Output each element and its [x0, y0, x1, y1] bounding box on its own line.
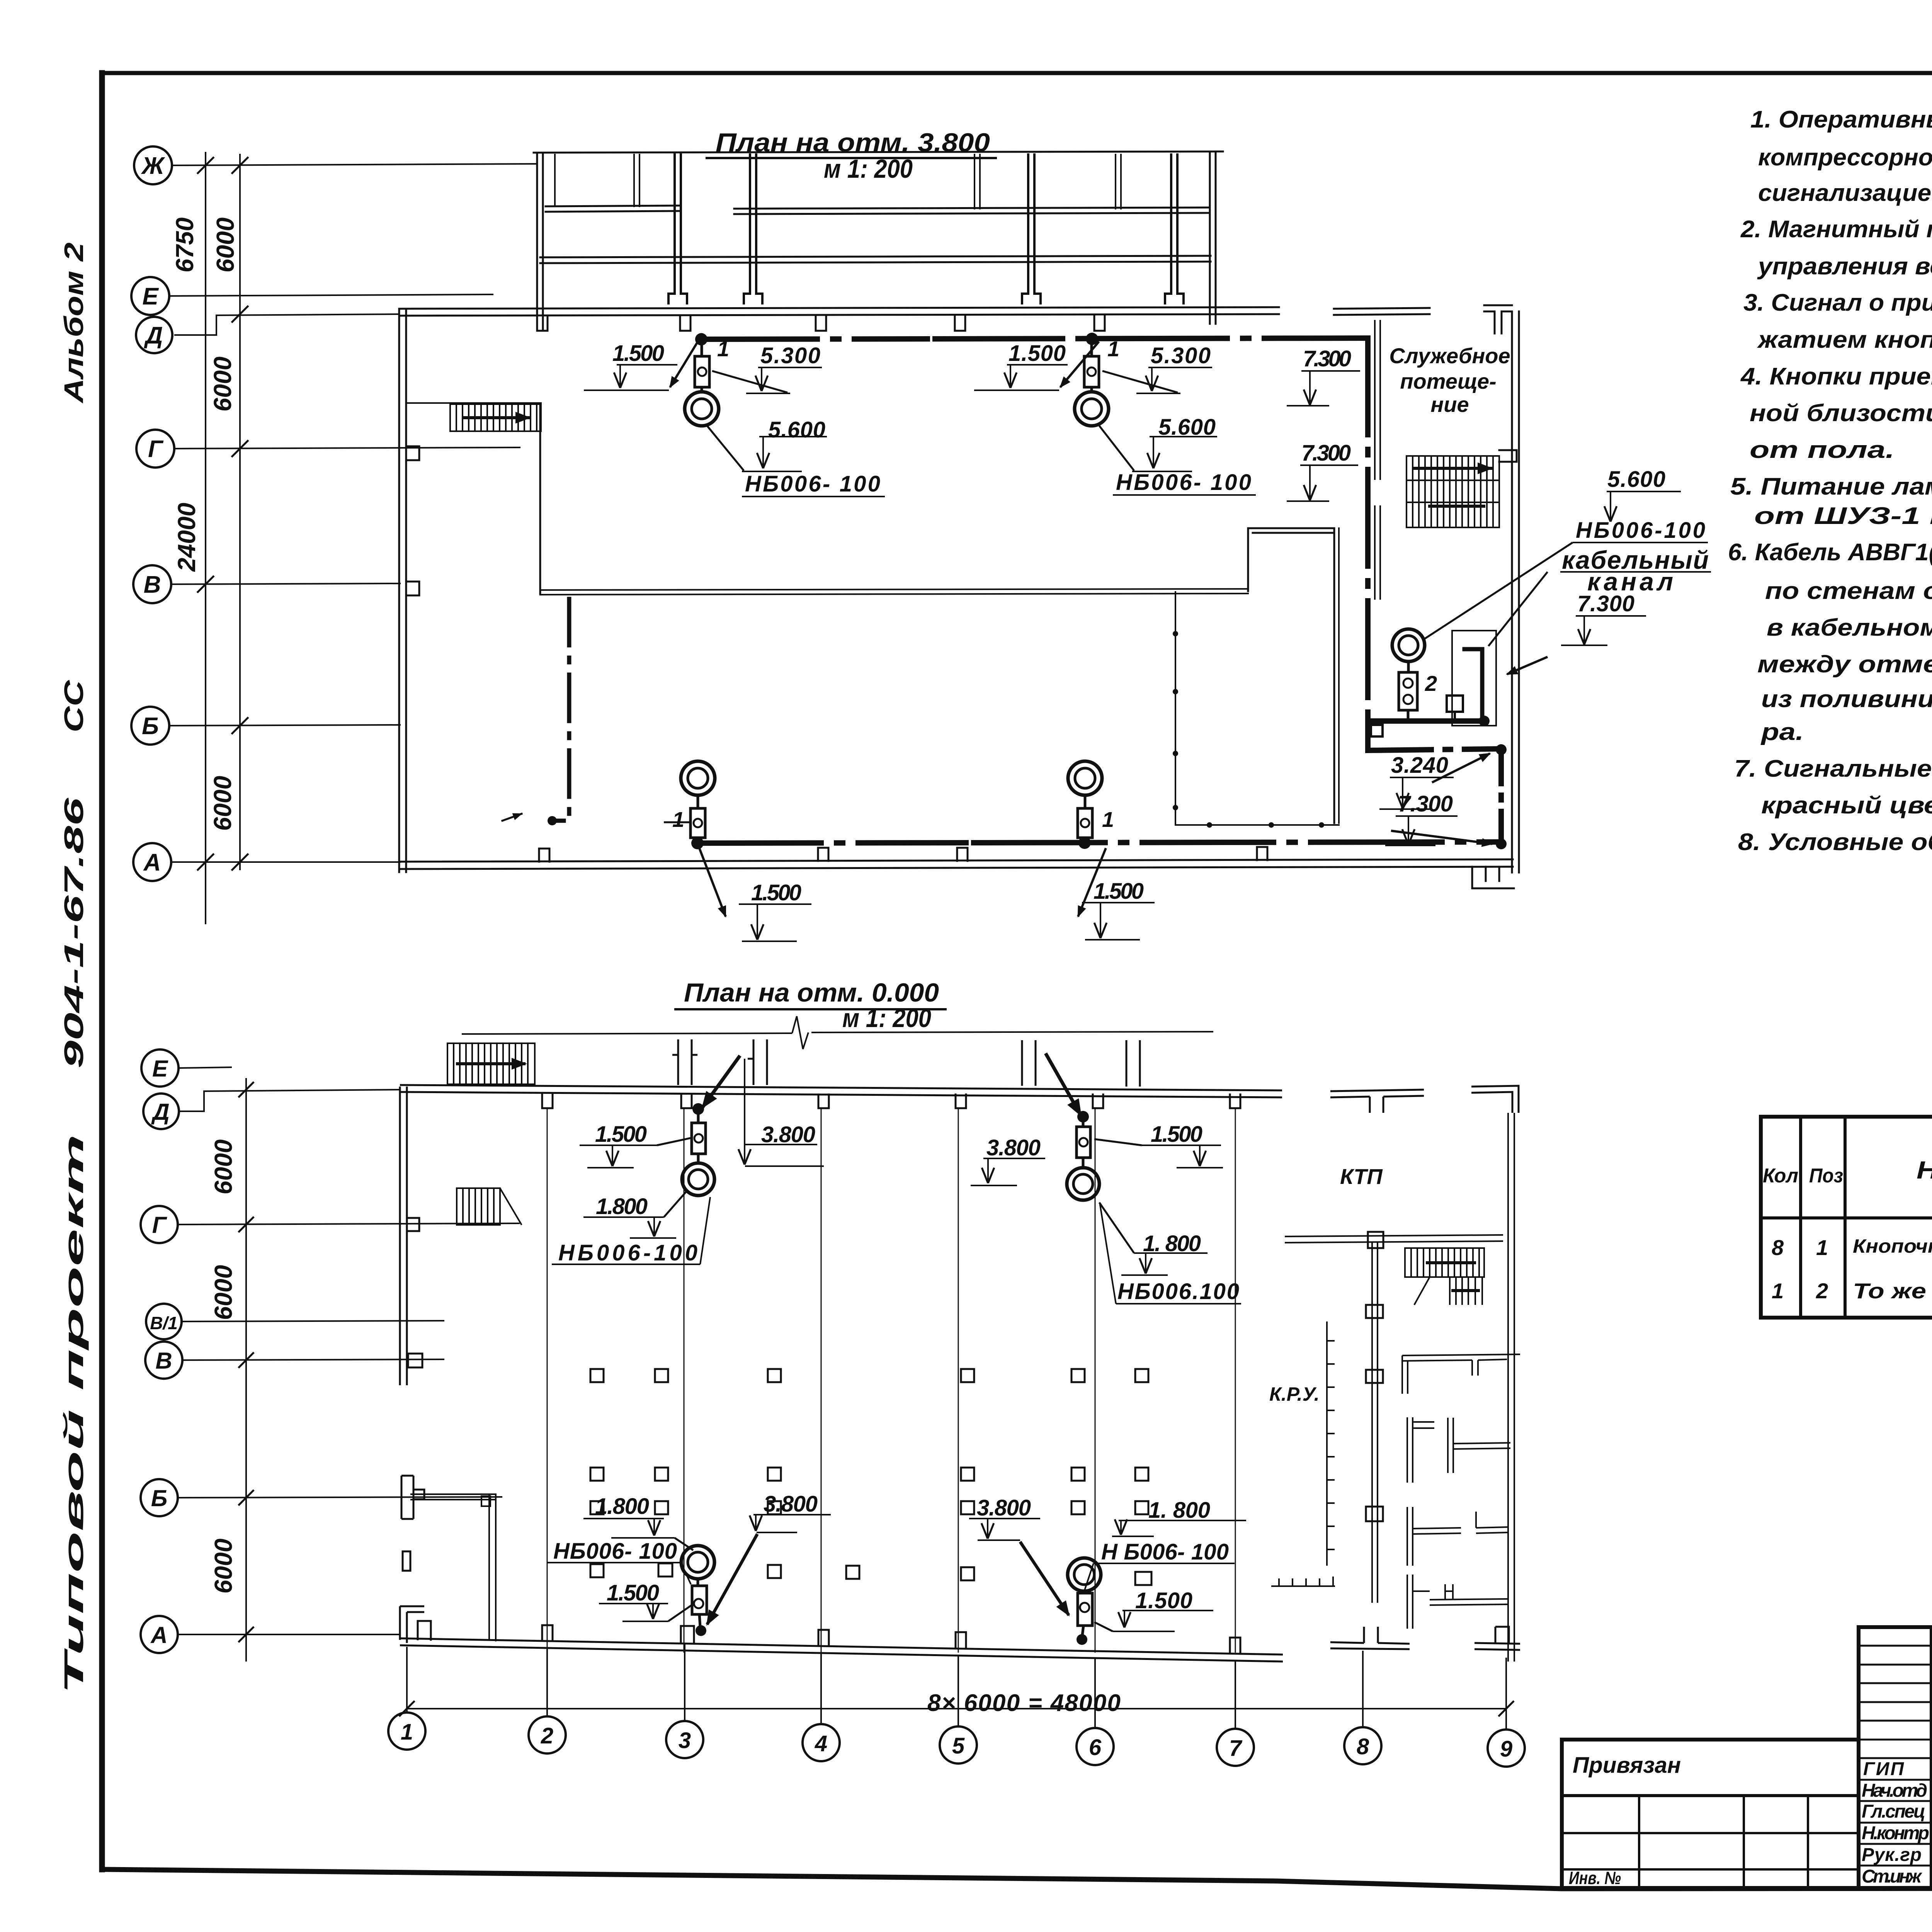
svg-text:из поливинилхлоридного пласти: из поливинилхлоридного пластиката на выс…: [1761, 686, 1932, 713]
svg-text:Кнопочный пост управления: Кнопочный пост управления: [1853, 1235, 1932, 1257]
margin vertical text: [59, 242, 89, 1694]
svg-text:потеще-: потеще-: [1400, 369, 1496, 393]
stair above top wall (hatched): [447, 1043, 535, 1084]
svg-text:1.500: 1.500: [1094, 879, 1144, 904]
cable horizontal in service room: [1368, 718, 1484, 724]
right outer wall: [1511, 311, 1513, 872]
svg-text:7. Сигнальные лампы окрасить: 7. Сигнальные лампы окрасить цапоновым л…: [1734, 755, 1932, 782]
svg-text:8× 6000 = 48000: 8× 6000 = 48000: [927, 1690, 1121, 1716]
grid axis leader Д (jog): [180, 1090, 400, 1111]
top-right column T: [1484, 305, 1512, 333]
interior wall vertical (stair room): [539, 404, 541, 594]
upper-right: dot/box/lamp: [1082, 1117, 1085, 1127]
bottom wall right segments: [1330, 1627, 1410, 1649]
svg-text:Н Б006- 100: Н Б006- 100: [1101, 1539, 1229, 1565]
thin grid verticals through plan: [547, 1108, 1235, 1653]
lamps and buttons bottom plan: [681, 1053, 1101, 1635]
svg-text:1: 1: [1107, 337, 1119, 361]
grid axis leader Г: [178, 1223, 520, 1225]
bubble stems: [407, 1644, 1506, 1730]
svg-text:А: А: [143, 849, 161, 876]
svg-text:5: 5: [952, 1733, 965, 1759]
svg-text:3.800: 3.800: [977, 1495, 1031, 1520]
svg-text:1: 1: [1816, 1235, 1828, 1260]
left outer wall: [398, 309, 400, 872]
tick scale bar: [1271, 1577, 1335, 1586]
svg-text:6000: 6000: [209, 1539, 237, 1594]
svg-text:6000: 6000: [209, 357, 236, 412]
svg-text:4: 4: [815, 1731, 827, 1756]
grid axis leader Е: [179, 1067, 232, 1068]
grid axis leader В: [171, 583, 400, 584]
svg-text:24000: 24000: [173, 503, 201, 572]
equipment squares row 4: [590, 1563, 1151, 1585]
interior room bottom-left: right wall: [488, 1494, 490, 1640]
svg-text:Кол: Кол: [1763, 1165, 1798, 1187]
svg-text:4. Кнопки приема вызова уст: 4. Кнопки приема вызова установить в неп…: [1740, 363, 1932, 390]
svg-text:2. Магнитный пускатель ПМЕ-2: 2. Магнитный пускатель ПМЕ-222 установит…: [1740, 216, 1932, 243]
svg-text:Е: Е: [152, 1056, 168, 1082]
svg-text:1.500: 1.500: [595, 1122, 647, 1147]
dim leader lines top plan: [584, 342, 1711, 941]
cable down right wall: [1498, 749, 1504, 845]
cable junction dots: [548, 333, 1507, 849]
cable left drop: [552, 599, 569, 821]
svg-text:ра.: ра.: [1760, 719, 1804, 745]
svg-text:5.300: 5.300: [760, 343, 820, 368]
svg-text:сигнализацией из потещения: сигнализацией из потещения диспетчера.: [1758, 180, 1932, 206]
svg-text:ние: ние: [1430, 392, 1469, 417]
svg-text:5.600: 5.600: [768, 417, 825, 442]
left outer wall: [399, 1087, 401, 1385]
small junction box on cable: [1371, 725, 1383, 736]
button post lower left: [690, 808, 705, 838]
svg-text:2: 2: [1425, 671, 1437, 696]
svg-text:управления вспомприводами ШУ: управления вспомприводами ШУЗ-1 на пульт…: [1757, 253, 1932, 280]
svg-text:1: 1: [672, 807, 684, 832]
dimension line 8x6000: [407, 1708, 1506, 1709]
svg-text:1. 800: 1. 800: [1148, 1498, 1210, 1523]
svg-text:А: А: [150, 1622, 167, 1648]
svg-text:6000: 6000: [211, 218, 239, 272]
svg-text:Поз: Поз: [1809, 1165, 1843, 1187]
gallery rail 2: [540, 256, 1211, 257]
grid axis leader Г: [174, 447, 520, 449]
right outer wall bottom plan: [1507, 1113, 1509, 1662]
svg-text:2: 2: [541, 1723, 553, 1748]
dim ticks: [198, 158, 248, 870]
cable run along bottom wall: [697, 843, 966, 843]
small stair lower (hatched with diagonal): [457, 1188, 522, 1225]
signature table: [1859, 1627, 1932, 1888]
grid axis leader А: [178, 1634, 400, 1635]
svg-text:3: 3: [679, 1728, 691, 1753]
svg-text:6750: 6750: [171, 218, 199, 272]
svg-text:между отметками 0,000 и 3.: между отметками 0,000 и 3.800 с защитой …: [1757, 651, 1932, 678]
column stubs on bottom wall: [539, 849, 549, 862]
svg-text:Д: Д: [144, 322, 163, 349]
bottom-left corner wall: [400, 1606, 424, 1643]
gallery top line: [534, 151, 1223, 153]
lamp lower left: [681, 761, 715, 795]
КРУ fence line with ticks: [1327, 1321, 1335, 1566]
svg-text:1.500: 1.500: [607, 1580, 659, 1605]
svg-text:1.500: 1.500: [751, 880, 801, 905]
top right corner wall: [1471, 1086, 1519, 1113]
gallery mullions: [554, 155, 556, 206]
svg-text:3.800: 3.800: [764, 1492, 818, 1517]
dim callouts top plan: [612, 341, 1709, 905]
stair right (hatched): [1405, 1248, 1484, 1305]
cable channel shaft rect: [1452, 631, 1496, 726]
svg-text:6000: 6000: [209, 1139, 237, 1194]
interior wall top-left room: [406, 402, 541, 404]
top wall right segment: [1334, 308, 1430, 309]
svg-text:Наименование: Наименование: [1917, 1156, 1932, 1184]
svg-text:Г: Г: [148, 436, 164, 463]
gallery column 4: [1165, 155, 1184, 303]
svg-text:7.300: 7.300: [1301, 440, 1351, 466]
svg-text:3. Сигнал о приеме вызова (: 3. Сигнал о приеме вызова (машинистом) п…: [1743, 289, 1932, 316]
central machine room: [1248, 528, 1334, 823]
svg-text:Ж: Ж: [141, 153, 165, 179]
gallery column 3: [1022, 155, 1041, 303]
grid bubbles bottom plan left: [141, 1049, 182, 1653]
columns above top wall: [672, 1039, 697, 1085]
service room lamp 2: [1392, 629, 1425, 662]
svg-text:7.300: 7.300: [1398, 791, 1453, 816]
svg-text:Альбом 2: Альбом 2: [59, 242, 89, 404]
svg-text:Г: Г: [152, 1212, 168, 1238]
main top wall of hall: [399, 307, 1279, 309]
vertical dim line: [245, 1078, 247, 1662]
bottom wall: [400, 1638, 1283, 1655]
svg-text:НБ006-100: НБ006-100: [558, 1240, 697, 1265]
bottom plan texts: [684, 978, 939, 1033]
numbered grid bubbles: [388, 1713, 1525, 1767]
svg-text:от ШУЗ-1 кабелем АВВГ-1(3×: от ШУЗ-1 кабелем АВВГ-1(3×2,5): [1754, 503, 1932, 529]
svg-text:1: 1: [401, 1719, 413, 1745]
stair service room (hatched): [1406, 450, 1517, 527]
button post 1 (upper right): [1084, 356, 1099, 387]
svg-text:6000: 6000: [209, 1265, 237, 1320]
button post 1 (upper left): [695, 356, 709, 387]
stair hatch small second flight: [1430, 505, 1484, 508]
svg-text:Типовой проект: Типовой проект: [59, 1134, 89, 1694]
pilaster on left wall (row В): [406, 582, 419, 595]
svg-text:СС: СС: [59, 680, 89, 733]
equipment squares row 3: [590, 1501, 1148, 1514]
interior wall A horizontal: [540, 589, 1248, 590]
svg-text:Д: Д: [151, 1099, 169, 1125]
grid axis leader Б: [178, 1497, 502, 1498]
svg-text:Служебное: Служебное: [1389, 344, 1510, 368]
column stub at corner: [418, 1621, 431, 1641]
svg-text:Гл.спец: Гл.спец: [1862, 1801, 1925, 1822]
svg-text:6. Кабель АВВГ1(3×2,5) пролож: 6. Кабель АВВГ1(3×2,5) проложить:: [1728, 539, 1932, 566]
svg-text:Ст.инж: Ст.инж: [1862, 1866, 1923, 1887]
floor box: [1447, 696, 1463, 712]
interior room small square: [481, 1496, 490, 1506]
svg-text:Н.контр: Н.контр: [1862, 1823, 1929, 1844]
svg-text:План на отм. 0.000: План на отм. 0.000: [684, 978, 939, 1007]
gallery column 2: [744, 155, 762, 303]
svg-text:красный цвет.: красный цвет.: [1761, 792, 1932, 819]
КТП wall column box: [1368, 1232, 1383, 1248]
equipment squares row 1: [590, 1369, 1148, 1382]
svg-text:Нач.отд: Нач.отд: [1862, 1781, 1927, 1801]
svg-text:КТП: КТП: [1340, 1164, 1383, 1189]
svg-text:7: 7: [1229, 1736, 1243, 1761]
svg-text:1.500: 1.500: [1151, 1122, 1202, 1147]
svg-text:8: 8: [1772, 1235, 1784, 1260]
heavy signal cables, top plan: [502, 338, 1501, 845]
stair top-left (hatched): [450, 404, 541, 431]
column stubs above bottom wall: [542, 1625, 553, 1641]
svg-text:К.Р.У.: К.Р.У.: [1269, 1383, 1320, 1405]
svg-text:Б: Б: [151, 1485, 167, 1511]
left wall T-block: [408, 1354, 422, 1367]
break zigzag: [792, 1016, 808, 1049]
lamps and buttons, top plan: [681, 344, 1496, 843]
lower-right: lamp/box/dot: [1068, 1558, 1101, 1591]
svg-text:5.300: 5.300: [1151, 343, 1211, 368]
cable run along top wall: [701, 339, 927, 339]
svg-text:В: В: [144, 571, 161, 598]
service room button post 2: [1399, 672, 1417, 710]
svg-text:в кабельном канале:: в кабельном канале:: [1767, 614, 1932, 641]
grid axis leader Ж: [172, 164, 537, 165]
interior partition maze: [1402, 1354, 1520, 1629]
svg-text:В: В: [155, 1348, 172, 1374]
svg-text:904-1-67.86: 904-1-67.86: [59, 797, 89, 1068]
junction dots bottom plan: [692, 1103, 1089, 1645]
bottom wall right column w/footing: [1472, 867, 1514, 888]
svg-text:по стенам открыто под скоб: по стенам открыто под скобки;: [1765, 578, 1932, 604]
service room partition: [1374, 321, 1376, 479]
svg-text:1: 1: [1102, 807, 1114, 832]
svg-text:6000: 6000: [209, 776, 236, 831]
table frame: [1761, 1117, 1932, 1318]
svg-text:ГИП: ГИП: [1863, 1759, 1904, 1779]
interior room bottom-left: top wall: [410, 1493, 497, 1495]
svg-text:1.500: 1.500: [612, 341, 664, 366]
svg-text:1.800: 1.800: [596, 1194, 648, 1219]
equipment squares row 2: [590, 1468, 1148, 1481]
gallery right wall: [1209, 152, 1211, 324]
upper-left: dot/box/lamp: [697, 1110, 700, 1123]
svg-text:1.800: 1.800: [595, 1494, 649, 1519]
svg-text:7.300: 7.300: [1577, 591, 1634, 616]
table header texts: [1763, 1124, 1932, 1206]
svg-text:3.800: 3.800: [761, 1122, 815, 1147]
header separator: [1761, 1216, 1932, 1219]
lamp upper right: [1075, 392, 1109, 426]
КРУ vertical wall: [1371, 1243, 1373, 1603]
svg-text:от пола.: от пола.: [1750, 437, 1895, 463]
svg-text:Е: Е: [142, 283, 159, 310]
grid axis leader В: [182, 1359, 444, 1360]
grid axis leader Д (jog): [175, 314, 399, 335]
pilaster on left wall (row Г): [406, 446, 419, 460]
left wall small pier: [403, 1551, 410, 1571]
grid axis leader Е: [169, 294, 493, 296]
left wall pilaster (Б row): [401, 1476, 424, 1519]
gallery rail 1: [546, 206, 679, 206]
svg-text:2: 2: [1816, 1279, 1828, 1303]
vertical dim labels top plan: [171, 218, 239, 831]
КРУ wall column boxes: [1366, 1305, 1383, 1318]
svg-text:НБ006- 100: НБ006- 100: [1116, 470, 1251, 495]
svg-text:1: 1: [1772, 1279, 1784, 1303]
svg-text:1.500: 1.500: [1135, 1588, 1192, 1613]
grid axis leader В1: [182, 1321, 444, 1321]
column stubs below top wall: [537, 316, 548, 331]
svg-text:То же: То же: [1853, 1279, 1926, 1303]
svg-text:3.800: 3.800: [986, 1135, 1041, 1160]
lamp lower right: [1068, 761, 1102, 795]
svg-text:1.500: 1.500: [1009, 341, 1066, 366]
svg-text:жатием кнопки „вызов принят: жатием кнопки „вызов принят”.: [1757, 327, 1932, 353]
vertical dim line 2 (6000s): [239, 155, 241, 869]
svg-text:6: 6: [1089, 1735, 1102, 1760]
svg-text:8. Условные обозначения смот: 8. Условные обозначения смотри лист 2, С…: [1738, 829, 1932, 855]
table data: [1772, 1229, 1932, 1315]
svg-text:Инв. №: Инв. №: [1569, 1868, 1621, 1888]
service room label: [1389, 344, 1510, 417]
top wall right segment (КТП): [1330, 1090, 1424, 1113]
grid bubbles top plan: [131, 146, 174, 881]
cable drop right side: [1365, 338, 1371, 721]
svg-text:9: 9: [1500, 1736, 1512, 1762]
svg-text:1: 1: [717, 337, 729, 361]
svg-text:5. Питание ламп вызывной си: 5. Питание ламп вызывной сигнализации ос…: [1730, 473, 1932, 500]
cable to wall corner: [1368, 721, 1501, 750]
svg-text:8: 8: [1357, 1734, 1369, 1759]
left wall pilaster Г row: [407, 1218, 419, 1231]
svg-text:7.300: 7.300: [1303, 346, 1351, 371]
vertical dim line 1 (6750 / 24000): [205, 153, 206, 923]
left attach table: [1562, 1740, 1859, 1888]
column stubs below top wall: [542, 1094, 553, 1108]
svg-text:НБ006-100: НБ006-100: [1576, 518, 1705, 543]
lower-left: lamp/box/dot: [681, 1546, 714, 1579]
top plan title: [716, 128, 990, 184]
roof break line: [462, 1032, 1213, 1034]
cable left stub arrow: [502, 814, 522, 821]
svg-text:3.240: 3.240: [1391, 753, 1448, 778]
svg-text:В/1: В/1: [150, 1313, 178, 1333]
column lines: [1799, 1117, 1802, 1318]
svg-text:Привязан: Привязан: [1573, 1753, 1681, 1778]
dim ticks: [238, 1082, 254, 1642]
svg-text:План на отм. 3.800: План на отм. 3.800: [716, 128, 990, 157]
bottom wall of hall: [399, 859, 1513, 862]
top wall: [400, 1085, 1282, 1090]
svg-text:НБ006- 100: НБ006- 100: [553, 1539, 677, 1564]
button post lower right: [1078, 808, 1092, 838]
svg-text:5.600: 5.600: [1607, 467, 1665, 492]
lamp upper left: [685, 392, 719, 426]
vertical dim labels bottom plan: [209, 1139, 237, 1594]
gallery column 1: [668, 155, 687, 303]
title block texts: [1569, 1753, 1932, 1888]
grid axis leader А: [171, 861, 400, 863]
svg-text:компрессорной станции осущес: компрессорной станции осуществляется выз…: [1758, 144, 1932, 171]
sheet frame: [102, 71, 1932, 75]
cable in channel down: [1464, 649, 1482, 719]
svg-text:1. Оперативный вызов дежурны: 1. Оперативный вызов дежурным оператором…: [1750, 106, 1932, 133]
svg-text:Б: Б: [142, 713, 159, 740]
callout pos labels "1": [672, 337, 1437, 832]
svg-text:Рук.гр: Рук.гр: [1862, 1845, 1922, 1865]
gallery left wall: [536, 153, 538, 329]
КТП wall horizontal: [1285, 1235, 1503, 1236]
grid axis leader Б: [169, 725, 400, 726]
machine room channel edges (dotted): [1175, 592, 1176, 825]
svg-text:м 1: 200: м 1: 200: [842, 1003, 931, 1033]
svg-text:ной близости от сигнальной: ной близости от сигнальной лампы на высо…: [1750, 400, 1932, 427]
svg-text:НБ006- 100: НБ006- 100: [745, 471, 880, 497]
dim leaders bottom plan: [547, 1059, 1246, 1631]
